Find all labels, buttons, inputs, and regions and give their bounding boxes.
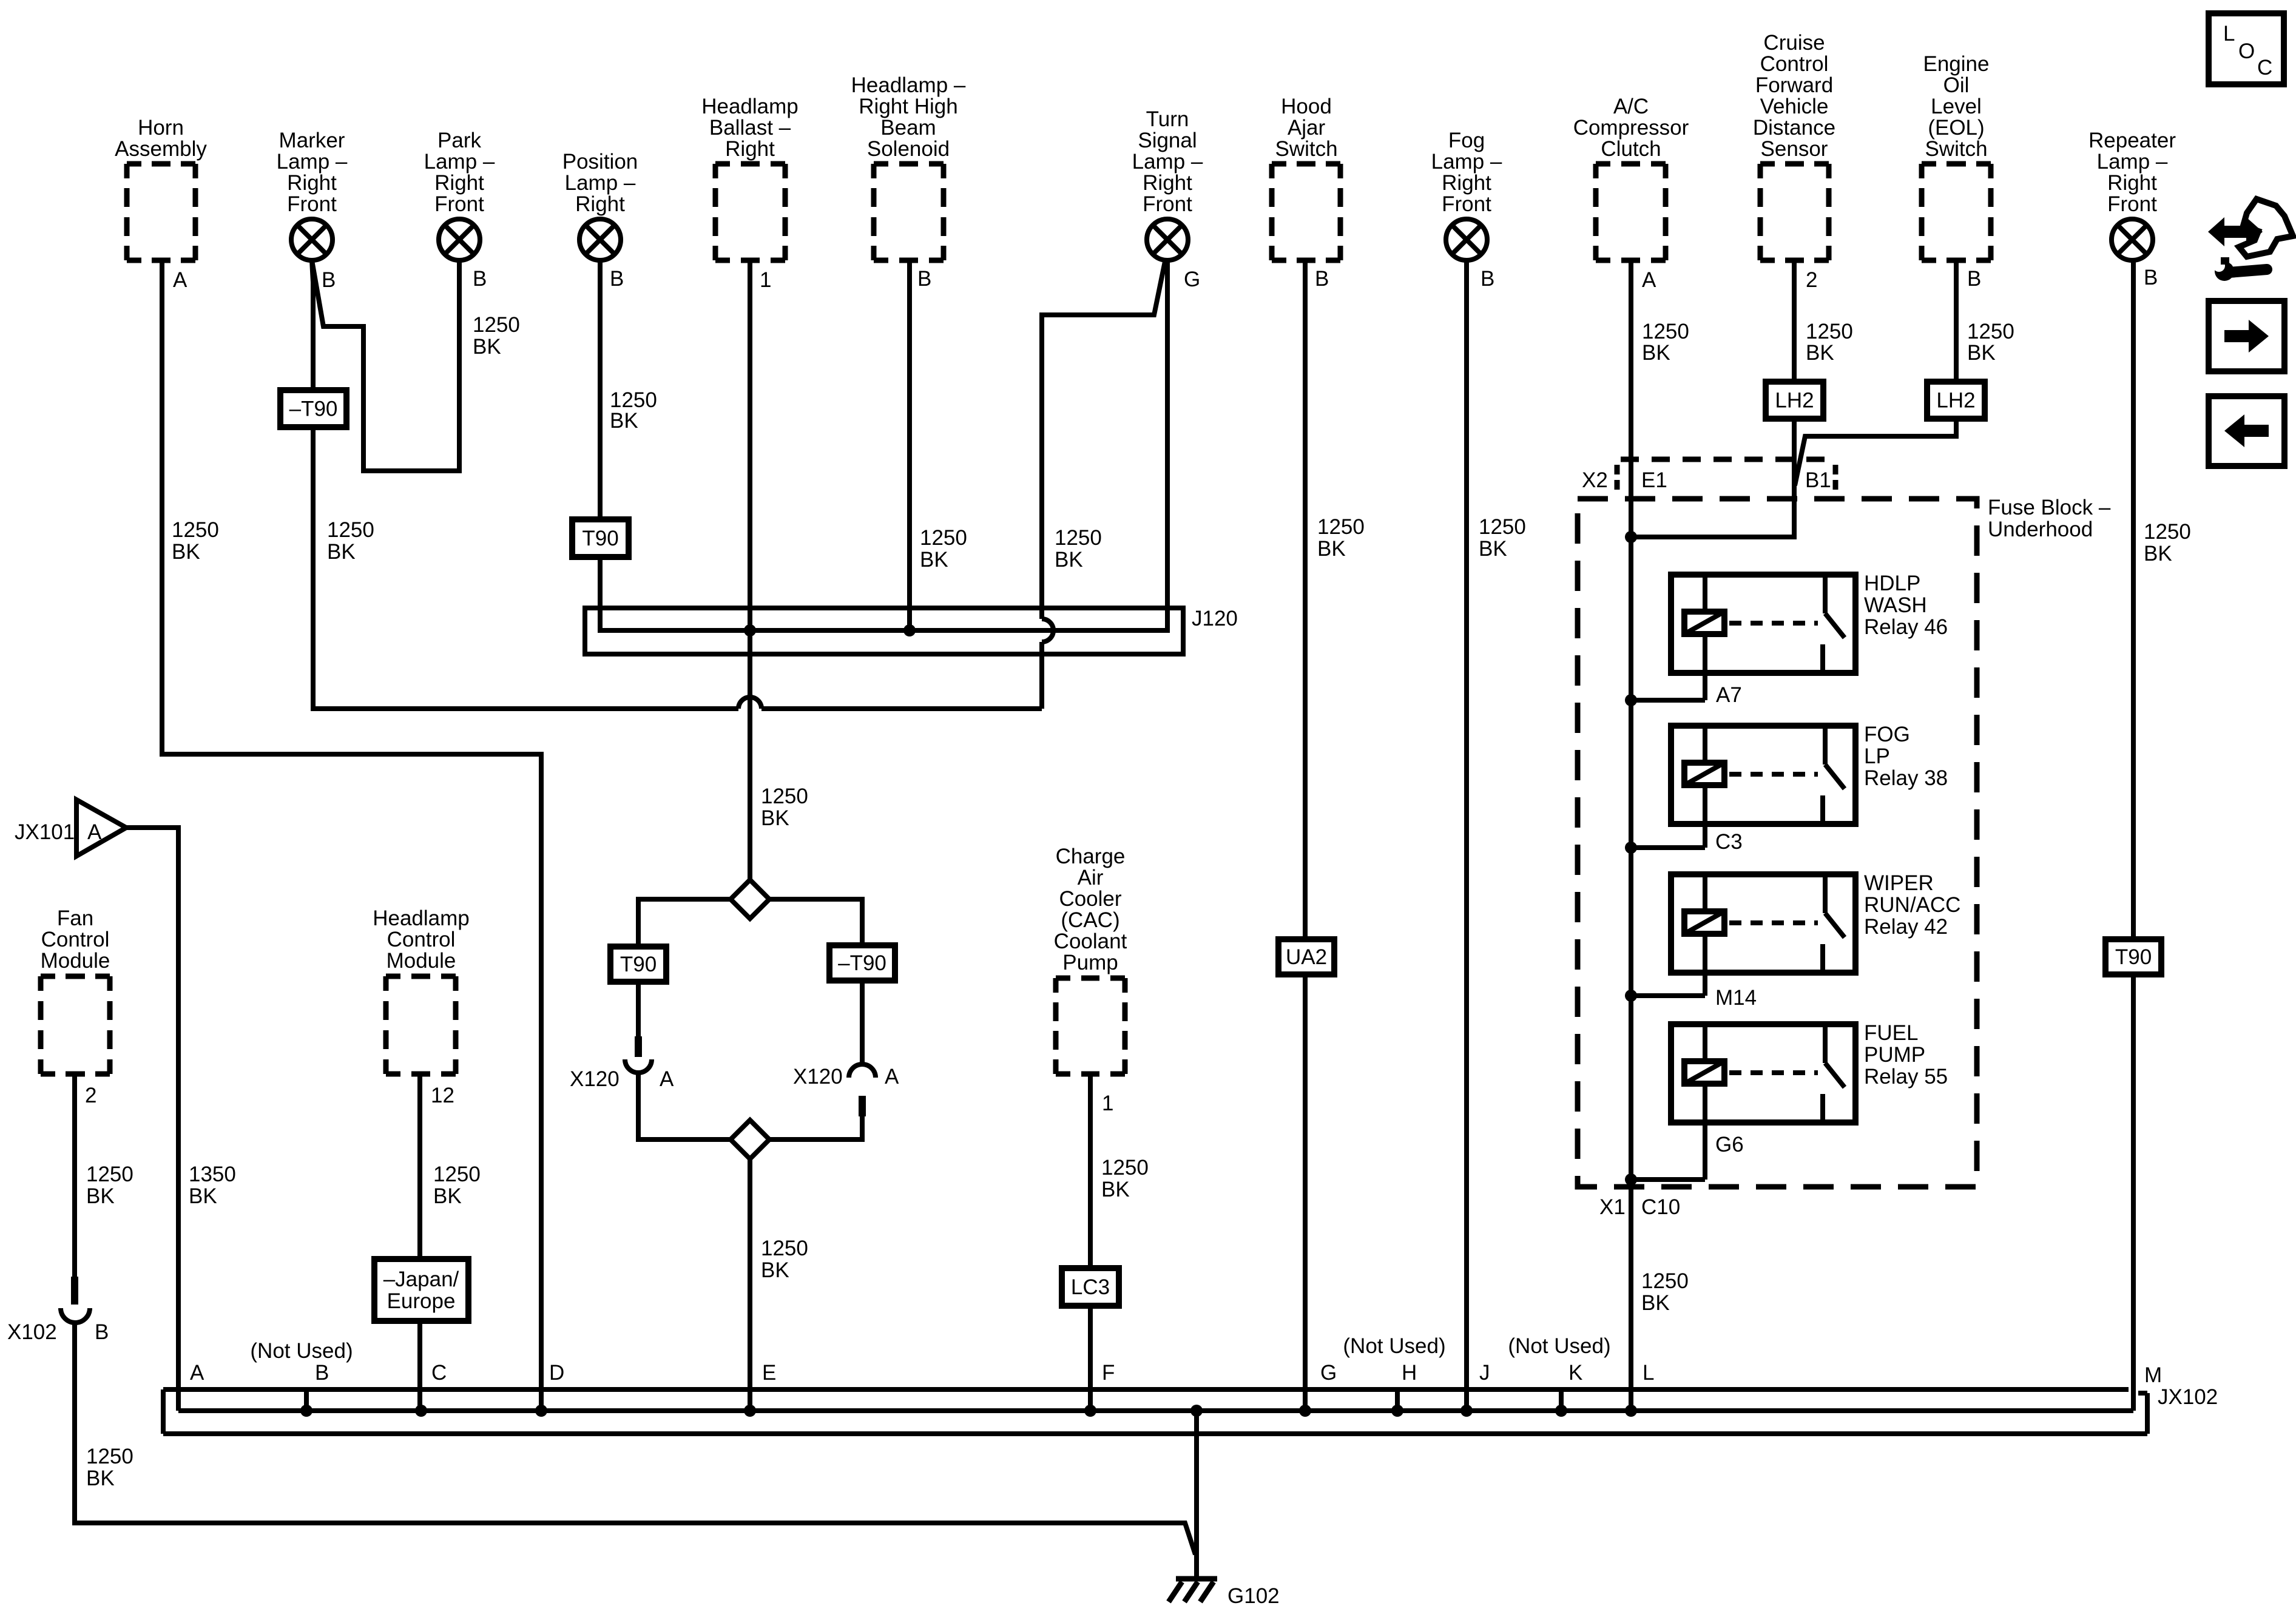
svg-text:Position: Position	[562, 150, 638, 174]
svg-text:1: 1	[760, 268, 771, 292]
svg-text:Module: Module	[387, 949, 456, 973]
svg-text:Lamp –: Lamp –	[565, 171, 636, 195]
svg-text:B: B	[473, 267, 487, 291]
svg-text:Ajar: Ajar	[1288, 116, 1326, 140]
svg-text:G: G	[1184, 268, 1200, 291]
wire LH2 eol joining cruise wire	[1795, 419, 1956, 485]
relay 42 WIPER RUN/ACC	[1625, 871, 1960, 1002]
svg-text:Headlamp: Headlamp	[701, 95, 799, 118]
svg-text:BK: BK	[761, 806, 789, 830]
svg-text:Coolant: Coolant	[1054, 930, 1127, 953]
legend left arrow box	[2209, 396, 2284, 466]
connector X120 left female cup	[625, 1059, 652, 1073]
fuse box LH2 (cruise)	[1766, 382, 1823, 419]
svg-text:BK: BK	[172, 540, 200, 564]
svg-text:A: A	[190, 1361, 204, 1385]
svg-text:E1: E1	[1641, 468, 1667, 492]
C10 cavity label	[1641, 1195, 1680, 1219]
wire label 1250 BK (horn)	[172, 518, 219, 564]
cruise control forward vehicle distance sensor connector box	[1753, 31, 1835, 260]
park lamp right front	[424, 129, 495, 260]
relay 38 FOG LP	[1625, 723, 1948, 854]
eol switch pin B label	[1967, 267, 1981, 291]
svg-text:1250: 1250	[327, 518, 374, 542]
fog lamp pin B label	[1481, 267, 1494, 291]
svg-text:BK: BK	[86, 1467, 115, 1490]
wire X102 B to ground G102	[75, 1323, 1195, 1555]
connector X2 right tick	[1833, 465, 1838, 493]
position lamp pin B label	[610, 267, 624, 291]
svg-text:A7: A7	[1716, 683, 1742, 707]
wire ac clutch A down through fuse block to JX102 pin L	[1629, 260, 1633, 1411]
wire -T90 down then right to turn signal wire	[313, 428, 738, 709]
svg-text:BK: BK	[761, 1258, 789, 1282]
svg-text:Relay 42: Relay 42	[1864, 915, 1948, 939]
position lamp right	[562, 150, 638, 260]
wire label 1250 BK (marker)	[327, 518, 374, 564]
svg-text:Front: Front	[2107, 192, 2157, 216]
wire fog lamp B to JX102 pin J	[1464, 260, 1469, 1411]
svg-text:LP: LP	[1864, 744, 1890, 768]
svg-text:Beam: Beam	[880, 116, 936, 140]
wire label 1250 BK (fan upper)	[86, 1163, 133, 1208]
X120 left pin A label	[660, 1067, 674, 1091]
svg-text:X1: X1	[1599, 1195, 1626, 1219]
svg-text:Relay 55: Relay 55	[1864, 1065, 1948, 1089]
svg-text:FOG: FOG	[1864, 723, 1910, 746]
repeater lamp right front	[2088, 129, 2176, 260]
svg-text:PUMP: PUMP	[1864, 1043, 1925, 1067]
svg-text:Lamp –: Lamp –	[424, 150, 495, 174]
svg-text:2: 2	[1806, 268, 1817, 292]
marker lamp pin B label	[322, 268, 336, 292]
turn signal lamp right front	[1132, 107, 1203, 260]
connector X120 right male terminal	[859, 1096, 866, 1116]
svg-text:Hood: Hood	[1281, 95, 1332, 118]
svg-text:T90: T90	[2115, 945, 2152, 969]
relay 38 pin C3 label	[1715, 830, 1743, 854]
headlamp right high beam solenoid connector box	[851, 73, 966, 260]
svg-text:12: 12	[431, 1084, 454, 1107]
svg-text:M: M	[2144, 1363, 2162, 1387]
junction dot ballast on J120 bus	[744, 624, 756, 636]
svg-text:Ballast –: Ballast –	[709, 116, 791, 140]
svg-text:Control: Control	[387, 928, 456, 951]
svg-text:F: F	[1102, 1361, 1115, 1385]
svg-text:Front: Front	[1442, 192, 1491, 216]
svg-text:Headlamp –: Headlamp –	[851, 73, 966, 97]
svg-text:BK: BK	[189, 1184, 217, 1208]
solenoid pin B label	[917, 267, 931, 291]
svg-text:BK: BK	[86, 1184, 115, 1208]
svg-text:Turn: Turn	[1146, 107, 1189, 131]
X102 label	[7, 1320, 57, 1344]
svg-text:Europe: Europe	[387, 1289, 456, 1313]
wire label 1250 BK (cruise)	[1806, 320, 1853, 365]
svg-text:Distance: Distance	[1753, 116, 1835, 140]
svg-text:(CAC): (CAC)	[1061, 908, 1119, 932]
svg-text:Right: Right	[575, 192, 625, 216]
wire repeater lamp B to JX102 pin M	[2131, 260, 2136, 1411]
wire label 1250 BK (fog)	[1479, 515, 1526, 561]
wire ballast pin 1 down to T90 option diamond	[748, 260, 752, 880]
svg-text:1250: 1250	[1806, 320, 1853, 343]
relay 46 pin A7 label	[1716, 683, 1742, 707]
wire position lamp B down to J120 splice bus	[600, 260, 1167, 630]
svg-text:A: A	[885, 1065, 899, 1089]
X1 label	[1599, 1195, 1626, 1219]
engine oil level switch connector box	[1922, 52, 1991, 260]
svg-text:FUEL: FUEL	[1864, 1021, 1918, 1045]
svg-text:LH2: LH2	[1775, 389, 1814, 413]
svg-text:T90: T90	[582, 527, 618, 550]
horn pin A label	[173, 268, 187, 292]
wire left option branch upper	[638, 899, 731, 947]
svg-text:Switch: Switch	[1925, 137, 1987, 161]
svg-text:X2: X2	[1582, 468, 1608, 492]
svg-text:M14: M14	[1715, 986, 1757, 1010]
svg-text:JX102: JX102	[2158, 1385, 2218, 1409]
X120 right label	[793, 1065, 843, 1089]
G102 label	[1227, 1584, 1280, 1608]
fuse box LC3 (cac pump)	[1062, 1268, 1119, 1306]
svg-text:A/C: A/C	[1613, 95, 1649, 118]
svg-text:L: L	[1643, 1361, 1654, 1385]
splice box T90 (repeater)	[2105, 939, 2161, 974]
fan control pin 2 label	[85, 1084, 96, 1107]
svg-text:B: B	[1967, 267, 1981, 291]
JX102 pin M label	[2144, 1363, 2162, 1387]
svg-text:BK: BK	[1642, 341, 1670, 365]
wire right branch to connector X120	[860, 981, 865, 1064]
junction dot B1 feed on ac wire	[1625, 531, 1637, 543]
legend right arrow box	[2209, 301, 2284, 371]
svg-text:HDLP: HDLP	[1864, 572, 1920, 595]
svg-text:D: D	[549, 1361, 564, 1385]
svg-text:Horn: Horn	[138, 116, 184, 140]
svg-text:Charge: Charge	[1056, 845, 1126, 868]
svg-text:BK: BK	[1479, 537, 1507, 561]
splice option box -T90 (right branch)	[829, 945, 895, 981]
option diamond top	[731, 880, 769, 919]
junction dots on JX102 bus	[415, 1405, 1637, 1417]
svg-text:L: L	[2223, 22, 2235, 46]
wire turn signal second terminal to marker ground run	[1042, 262, 1165, 619]
wire label 1250 BK (hcm)	[433, 1163, 481, 1208]
svg-text:B1: B1	[1805, 468, 1831, 492]
JX101 label	[15, 820, 75, 844]
wire turn signal branch down to ground run	[1039, 642, 1044, 709]
svg-text:Right: Right	[287, 171, 337, 195]
wire JX101 A to JX102 pin A	[126, 828, 178, 1411]
svg-text:–Japan/: –Japan/	[383, 1268, 459, 1291]
svg-text:BK: BK	[920, 548, 948, 572]
fan control module connector box	[41, 906, 110, 1074]
wire label 1250 BK (park)	[473, 313, 520, 359]
svg-text:A: A	[87, 820, 102, 844]
svg-text:Fan: Fan	[57, 906, 93, 930]
X120 left label	[570, 1067, 620, 1091]
wire label 1250 BK (ballast lower)	[761, 1237, 808, 1282]
not used label pin K	[1508, 1334, 1610, 1358]
not used label pin H	[1343, 1334, 1445, 1358]
svg-text:Oil: Oil	[1943, 73, 1970, 97]
connector X102 male terminal	[71, 1277, 78, 1305]
wire label 1350 BK (jx101)	[189, 1163, 236, 1208]
wire label 1250 BK (fan lower)	[86, 1445, 133, 1490]
svg-text:(Not Used): (Not Used)	[250, 1339, 353, 1363]
hood ajar switch connector box	[1272, 95, 1340, 260]
wire continues right to turn signal lamp branch	[761, 706, 1042, 711]
JX102 internal bus	[178, 1408, 2133, 1413]
svg-text:X120: X120	[570, 1067, 620, 1091]
fuse box UA2 (hood ajar)	[1278, 939, 1334, 974]
svg-text:X120: X120	[793, 1065, 843, 1089]
JX102 pin letters	[190, 1361, 1654, 1385]
svg-text:Right: Right	[1143, 171, 1192, 195]
svg-text:Front: Front	[1143, 192, 1192, 216]
charge air cooler coolant pump connector box	[1054, 845, 1127, 1074]
svg-text:Forward: Forward	[1755, 73, 1833, 97]
svg-text:1250: 1250	[86, 1163, 133, 1186]
svg-text:1: 1	[1102, 1092, 1113, 1115]
svg-text:UA2: UA2	[1286, 945, 1327, 969]
option diamond bottom	[731, 1120, 769, 1159]
svg-text:–T90: –T90	[289, 397, 338, 421]
svg-text:Switch: Switch	[1275, 137, 1337, 161]
wire label 1250 BK (repeater lower)	[2144, 520, 2191, 565]
wire horn pin A to JX102 pin D	[162, 260, 541, 1411]
JX102 stub pin K	[1555, 1389, 1567, 1417]
svg-text:1250: 1250	[920, 526, 967, 550]
svg-text:Assembly: Assembly	[115, 137, 207, 161]
svg-text:Control: Control	[41, 928, 110, 951]
wire label 1250 BK (ac)	[1642, 320, 1689, 365]
svg-text:Lamp –: Lamp –	[1132, 150, 1203, 174]
svg-text:C10: C10	[1641, 1195, 1680, 1219]
svg-text:Engine: Engine	[1923, 52, 1990, 76]
B1 cavity label	[1805, 468, 1831, 492]
wire label 1250 BK (cac)	[1101, 1156, 1149, 1201]
svg-text:Front: Front	[287, 192, 337, 216]
connector X2 row dashed line	[1621, 457, 1835, 462]
svg-text:Right: Right	[1442, 171, 1491, 195]
wire marker lamp to park lamp loop	[312, 260, 459, 471]
svg-text:Underhood: Underhood	[1988, 518, 2093, 541]
svg-text:Lamp –: Lamp –	[277, 150, 348, 174]
wire right branch lower	[769, 1116, 862, 1139]
wire label 1250 BK (position)	[610, 388, 657, 433]
headlamp control module connector box	[373, 906, 470, 1074]
svg-text:BK: BK	[1317, 537, 1346, 561]
svg-text:1250: 1250	[86, 1445, 133, 1468]
relay 55 pin G6 label	[1715, 1133, 1744, 1156]
svg-text:WIPER: WIPER	[1864, 871, 1934, 895]
svg-text:2: 2	[85, 1084, 96, 1107]
JX102 label	[2158, 1385, 2218, 1409]
LOC legend box	[2209, 13, 2284, 84]
option box -Japan/Europe	[374, 1259, 468, 1321]
splice option box -T90 (marker)	[280, 390, 346, 427]
svg-text:B: B	[1315, 267, 1329, 291]
svg-text:BK: BK	[433, 1184, 462, 1208]
svg-text:Solenoid: Solenoid	[867, 137, 950, 161]
wire label 1250 BK (solenoid)	[920, 526, 967, 572]
svg-text:A: A	[173, 268, 187, 292]
JX102 stub pin H	[1391, 1389, 1403, 1417]
JX102 stub pin B	[300, 1389, 312, 1417]
wire diamond bottom to JX102 pin E	[748, 1159, 752, 1411]
headlamp ballast right connector box	[701, 95, 799, 260]
svg-text:E: E	[762, 1361, 776, 1385]
svg-text:1250: 1250	[761, 785, 808, 808]
svg-text:B: B	[322, 268, 336, 292]
svg-text:Right: Right	[434, 171, 484, 195]
service icon wrench	[2213, 257, 2267, 281]
relay 55 FUEL PUMP	[1625, 1021, 1948, 1186]
svg-text:(EOL): (EOL)	[1928, 116, 1984, 140]
svg-text:1350: 1350	[189, 1163, 236, 1186]
svg-text:BK: BK	[1055, 548, 1083, 572]
svg-text:Cooler: Cooler	[1059, 887, 1121, 911]
svg-text:JX101: JX101	[15, 820, 75, 844]
marker lamp right front	[277, 129, 348, 260]
service icon double arrow	[2208, 217, 2263, 246]
ac compressor clutch connector box	[1573, 95, 1689, 260]
svg-text:B: B	[917, 267, 931, 291]
service icon outline arrow	[2239, 199, 2293, 257]
svg-text:Air: Air	[1078, 866, 1104, 890]
splice option box T90 (left branch)	[610, 947, 666, 982]
svg-text:BK: BK	[473, 335, 501, 359]
svg-text:Pump: Pump	[1062, 951, 1118, 974]
svg-text:Module: Module	[41, 949, 110, 973]
svg-text:Repeater: Repeater	[2088, 129, 2176, 152]
svg-text:BK: BK	[1641, 1291, 1670, 1315]
connector X120 right female cup	[849, 1064, 876, 1078]
svg-text:WASH: WASH	[1864, 593, 1927, 617]
svg-text:Right: Right	[2107, 171, 2157, 195]
connector X102 female cup	[61, 1308, 90, 1323]
svg-text:Lamp –: Lamp –	[2097, 150, 2168, 174]
svg-text:1250: 1250	[761, 1237, 808, 1260]
wire label 1250 BK (ballast upper)	[761, 785, 808, 830]
ac clutch pin A label	[1642, 268, 1656, 292]
svg-text:Vehicle: Vehicle	[1760, 95, 1829, 118]
wire fan control pin 2 to X102	[72, 1074, 77, 1277]
svg-text:A: A	[1642, 268, 1656, 292]
splice box T90 (position)	[572, 519, 629, 557]
svg-text:1250: 1250	[1641, 1269, 1689, 1293]
svg-text:J120: J120	[1192, 607, 1238, 630]
svg-text:B: B	[315, 1361, 329, 1385]
svg-text:1250: 1250	[1967, 320, 2014, 343]
relay 46 HDLP WASH	[1625, 572, 1948, 706]
fuse box LH2 (eol)	[1927, 382, 1985, 419]
svg-text:Lamp –: Lamp –	[1431, 150, 1502, 174]
wire hood ajar switch B to JX102 pin G	[1303, 260, 1308, 1411]
turn signal pin G label	[1184, 268, 1200, 291]
svg-text:Right High: Right High	[859, 95, 957, 118]
svg-text:B: B	[95, 1320, 109, 1344]
svg-text:C: C	[431, 1361, 447, 1385]
svg-text:(Not Used): (Not Used)	[1508, 1334, 1610, 1358]
wire LH2 cruise down to fuse block B1 junction	[1631, 419, 1794, 537]
svg-text:Relay 38: Relay 38	[1864, 766, 1948, 790]
svg-text:Headlamp: Headlamp	[373, 906, 470, 930]
svg-text:Relay 46: Relay 46	[1864, 615, 1948, 639]
cruise sensor pin 2 label	[1806, 268, 1817, 292]
wire left branch lower	[638, 1073, 731, 1139]
svg-text:T90: T90	[620, 953, 657, 976]
svg-text:1250: 1250	[1642, 320, 1689, 343]
svg-text:Right: Right	[725, 137, 775, 161]
JX101 pin A label	[87, 820, 102, 844]
svg-text:O: O	[2238, 39, 2255, 63]
wire label 1250 BK (eol)	[1967, 320, 2014, 365]
hood ajar pin B label	[1315, 267, 1329, 291]
horn assembly connector box	[115, 116, 207, 260]
svg-text:1250: 1250	[1055, 526, 1102, 550]
svg-text:Cruise: Cruise	[1763, 31, 1825, 55]
svg-text:X102: X102	[7, 1320, 57, 1344]
JX101 connector triangle	[76, 800, 126, 856]
X120 right pin A label	[885, 1065, 899, 1089]
svg-text:LC3: LC3	[1071, 1275, 1110, 1299]
svg-text:1250: 1250	[172, 518, 219, 542]
connector X120 left male terminal	[635, 1036, 642, 1057]
svg-text:A: A	[660, 1067, 674, 1091]
wire label 1250 BK (fuse block output)	[1641, 1269, 1689, 1315]
svg-text:BK: BK	[2144, 542, 2172, 565]
connector X2 left tick	[1615, 465, 1620, 493]
svg-text:BK: BK	[327, 540, 356, 564]
svg-text:1250: 1250	[1479, 515, 1526, 539]
junction dot solenoid on J120 bus	[903, 624, 916, 636]
repeater pin B label	[2144, 266, 2158, 289]
wire hcm pin 12 to JX102 pin C	[417, 1074, 422, 1411]
svg-text:Clutch: Clutch	[1601, 137, 1661, 161]
fuse block label	[1988, 496, 2111, 541]
wire eol switch B to LH2	[1954, 260, 1959, 382]
svg-text:BK: BK	[1101, 1178, 1130, 1201]
svg-text:K: K	[1568, 1361, 1582, 1385]
cac pump pin 1 label	[1102, 1092, 1113, 1115]
relay 42 pin M14 label	[1715, 986, 1757, 1010]
svg-text:G102: G102	[1227, 1584, 1280, 1608]
svg-text:Park: Park	[437, 129, 481, 152]
J120 splice shield loop	[585, 608, 1183, 654]
wire ground tap to G102	[1194, 1411, 1199, 1579]
wire cac pump pin 1 to JX102 pin F	[1088, 1074, 1093, 1411]
svg-text:–T90: –T90	[838, 951, 886, 975]
wire left branch to connector X120	[636, 982, 641, 1036]
svg-text:G6: G6	[1715, 1133, 1744, 1156]
JX102 connector body	[163, 1389, 2147, 1434]
svg-text:Marker: Marker	[279, 129, 345, 152]
J120 label	[1192, 607, 1238, 630]
svg-text:B: B	[610, 267, 624, 291]
hop of turn signal wire over J120 bus	[1042, 619, 1053, 642]
svg-text:Fuse Block –: Fuse Block –	[1988, 496, 2111, 519]
svg-text:H: H	[1402, 1361, 1417, 1385]
wire solenoid pin B down to J120 bus	[907, 260, 912, 630]
not used label pin B	[250, 1339, 353, 1363]
fuse block underhood dashed outline	[1578, 499, 1977, 1187]
ground symbol G102	[1169, 1579, 1217, 1602]
svg-text:Compressor: Compressor	[1573, 116, 1689, 140]
svg-text:Fog: Fog	[1448, 129, 1485, 152]
